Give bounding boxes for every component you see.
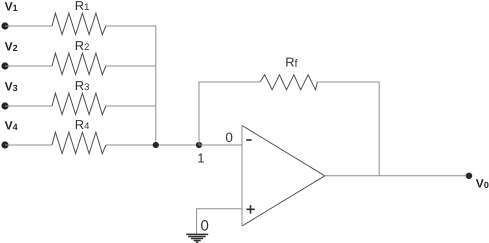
svg-text:V3: V3 — [5, 79, 18, 93]
wire plus input to ground — [197, 209, 242, 235]
wire feedback left — [199, 82, 260, 145]
svg-text:V0: V0 — [476, 177, 489, 191]
wire V1 lead — [5, 25, 52, 27]
svg-text:V4: V4 — [5, 118, 18, 132]
terminal V0 — [466, 173, 472, 179]
wire feedback right — [317, 82, 379, 176]
svg-text:0: 0 — [201, 218, 209, 235]
wire R3 to bus — [106, 105, 156, 107]
wire bus vertical — [155, 26, 157, 145]
resistor R1 — [52, 13, 106, 34]
svg-text:0: 0 — [225, 130, 233, 145]
node 1 junction — [196, 142, 202, 148]
terminal V1 — [1, 22, 8, 29]
svg-text:Rf: Rf — [285, 54, 298, 70]
wire R4 to node 1 — [106, 144, 199, 146]
junction bus row4 — [153, 142, 159, 148]
op-amp minus input symbol — [246, 139, 251, 141]
svg-text:V1: V1 — [5, 0, 18, 13]
resistor R3 — [52, 93, 106, 114]
ground — [186, 234, 208, 242]
wire node 1 to op-amp minus input — [199, 144, 242, 146]
svg-text:R1: R1 — [75, 0, 90, 13]
wire output — [325, 175, 469, 177]
resistor R4 — [52, 132, 106, 153]
svg-text:V2: V2 — [5, 39, 18, 53]
terminal V3 — [1, 102, 8, 109]
resistor R2 — [52, 53, 106, 74]
wire V2 lead — [5, 65, 52, 67]
wire V3 lead — [5, 105, 52, 107]
terminal V4 — [1, 141, 8, 148]
svg-text:R2: R2 — [75, 38, 90, 53]
op-amp plus input symbol — [246, 205, 254, 214]
svg-text:1: 1 — [197, 151, 204, 166]
svg-text:R4: R4 — [75, 117, 90, 132]
wire R2 to bus — [106, 65, 156, 67]
terminal V2 — [1, 62, 8, 69]
resistor Rf — [260, 75, 317, 90]
svg-text:R3: R3 — [75, 78, 90, 93]
op-amp U1 — [242, 126, 325, 227]
wire V4 lead — [5, 144, 52, 146]
wire R1 to bus — [106, 25, 156, 27]
